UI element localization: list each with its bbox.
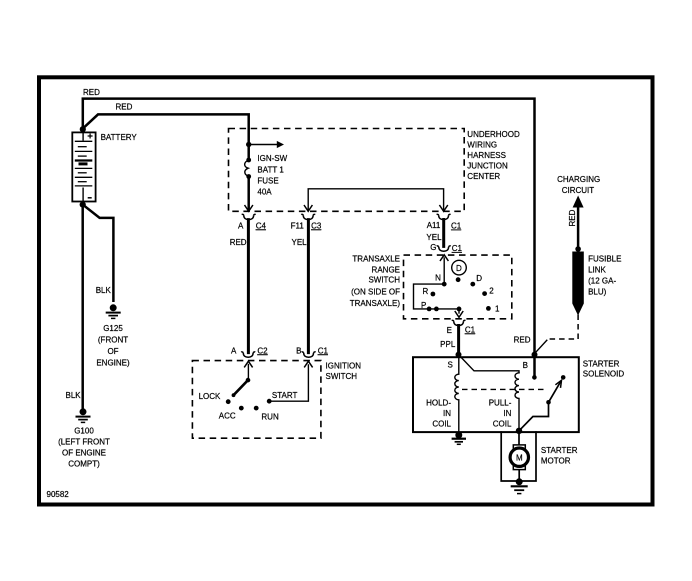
battery positive terminal junction: [80, 126, 86, 132]
position START: [267, 399, 272, 404]
svg-text:TRANSAXLE: TRANSAXLE: [352, 254, 400, 263]
connector C2 (ignition A): [243, 353, 253, 357]
contact R: [431, 292, 436, 297]
svg-text:TRANSAXLE): TRANSAXLE): [350, 299, 401, 308]
contact 2: [482, 291, 487, 296]
wire YEL C3 to ignition switch B: [307, 220, 310, 353]
svg-text:STARTER: STARTER: [583, 359, 620, 368]
svg-text:RED: RED: [230, 238, 247, 247]
svg-text:90582: 90582: [47, 490, 70, 499]
svg-text:1: 1: [495, 305, 500, 314]
svg-text:LOCK: LOCK: [199, 392, 221, 401]
svg-text:C2: C2: [257, 346, 268, 355]
fusible link: [572, 252, 584, 304]
svg-text:40A: 40A: [257, 188, 272, 197]
svg-text:STARTER: STARTER: [541, 446, 578, 455]
svg-text:IGNITION: IGNITION: [326, 361, 362, 370]
starter motor tub: [501, 432, 536, 481]
dashed wire fusible link to solenoid B: [548, 315, 578, 340]
contact 1: [486, 306, 491, 311]
svg-text:COIL: COIL: [432, 420, 451, 429]
svg-text:RANGE: RANGE: [372, 266, 400, 275]
svg-text:BLU): BLU): [588, 288, 607, 297]
svg-text:RED: RED: [116, 103, 133, 112]
mechanical link dashed: [462, 388, 547, 390]
svg-text:B: B: [523, 361, 528, 370]
svg-text:2: 2: [489, 286, 494, 295]
motor junction: [516, 428, 522, 434]
svg-text:FUSIBLE: FUSIBLE: [588, 255, 621, 264]
battery: [72, 132, 95, 201]
wire BLK battery- to G125: [83, 205, 114, 301]
svg-text:HOLD-: HOLD-: [426, 399, 451, 408]
svg-text:IN: IN: [503, 409, 511, 418]
svg-text:(12 GA-: (12 GA-: [588, 277, 616, 286]
svg-text:C3: C3: [311, 221, 322, 230]
svg-text:S: S: [447, 361, 452, 370]
connector C1 (transaxle): [439, 247, 449, 251]
connector C3: [303, 215, 313, 219]
wire junction to motor: [518, 431, 520, 445]
battery negative terminal junction: [80, 202, 86, 208]
contact P (double): [427, 307, 432, 312]
svg-text:FUSE: FUSE: [257, 177, 278, 186]
switch input shaft with arrow: [443, 258, 445, 284]
wire RED battery+ to junction center fuse: [83, 114, 249, 158]
wire RED C4 to ignition switch A: [247, 220, 250, 353]
svg-text:G: G: [430, 243, 436, 252]
svg-text:COIL: COIL: [493, 420, 512, 429]
starter solenoid box: [413, 357, 579, 432]
bracket wire N to P to output: [414, 284, 460, 309]
motor ground: [511, 479, 528, 494]
svg-text:A: A: [238, 221, 244, 230]
contact below circled D: [456, 277, 461, 282]
underhood junction center dashed box: [229, 129, 465, 212]
svg-text:RED: RED: [568, 209, 577, 226]
hold-in coil: [455, 357, 459, 432]
svg-text:LINK: LINK: [588, 266, 606, 275]
svg-text:C1: C1: [318, 346, 329, 355]
svg-text:D: D: [456, 264, 462, 273]
svg-text:(ON SIDE OF: (ON SIDE OF: [351, 287, 400, 296]
node B: [532, 352, 538, 358]
svg-text:R: R: [423, 287, 429, 296]
svg-text:ENGINE): ENGINE): [96, 359, 130, 368]
svg-text:UNDERHOOD: UNDERHOOD: [467, 130, 520, 139]
ignition lever input arrow: [247, 365, 249, 381]
svg-text:COMPT): COMPT): [68, 460, 100, 469]
svg-text:SWITCH: SWITCH: [326, 372, 358, 381]
pull-in coil feed from S: [459, 355, 520, 373]
transaxle range switch dashed box: [404, 255, 512, 319]
svg-text:C1: C1: [465, 325, 476, 334]
connector C1 (junction center): [439, 215, 449, 219]
svg-text:HARNESS: HARNESS: [467, 151, 506, 160]
connector C1 (transaxle output E): [454, 321, 464, 325]
lever to motor junction: [519, 402, 549, 431]
svg-text:SOLENOID: SOLENOID: [583, 370, 625, 379]
svg-text:YEL: YEL: [426, 233, 442, 242]
svg-text:OF ENGINE: OF ENGINE: [62, 449, 106, 458]
wire RED battery+ to solenoid B (top run): [83, 99, 535, 354]
fusible link junction: [575, 246, 581, 252]
svg-text:C4: C4: [256, 221, 267, 230]
svg-text:B: B: [296, 346, 301, 355]
svg-text:START: START: [272, 391, 298, 400]
svg-text:SWITCH: SWITCH: [368, 276, 400, 285]
svg-text:A: A: [231, 346, 237, 355]
connector C4: [244, 215, 254, 219]
wire fuse to connector C4: [247, 178, 250, 210]
wire B contact: [533, 355, 536, 375]
position RUN: [254, 406, 259, 411]
svg-text:F11: F11: [291, 221, 305, 230]
contact D: [470, 282, 475, 287]
contact N: [442, 282, 447, 287]
ignition pivot: [246, 378, 251, 383]
svg-text:BLK: BLK: [96, 286, 112, 295]
svg-text:IN: IN: [443, 409, 451, 418]
svg-text:CENTER: CENTER: [467, 172, 500, 181]
ignition lever: [234, 380, 249, 395]
wire START to B connector: [269, 365, 308, 401]
svg-text:G100: G100: [74, 426, 94, 435]
svg-text:N: N: [435, 274, 441, 283]
svg-text:PULL-: PULL-: [489, 399, 512, 408]
svg-text:BATT 1: BATT 1: [257, 165, 284, 174]
svg-text:MOTOR: MOTOR: [541, 457, 571, 466]
fuse IGN-SW BATT 1 FUSE 40A: [246, 158, 251, 163]
svg-text:RED: RED: [514, 336, 531, 345]
node S: [456, 352, 462, 358]
svg-text:C1: C1: [452, 244, 463, 253]
svg-text:M: M: [516, 453, 523, 462]
svg-text:OF: OF: [107, 347, 118, 356]
moving contact tip: [561, 375, 566, 380]
svg-text:YEL: YEL: [292, 238, 308, 247]
svg-text:PPL: PPL: [440, 340, 456, 349]
svg-text:WIRING: WIRING: [467, 141, 497, 150]
svg-text:(LEFT FRONT: (LEFT FRONT: [58, 438, 110, 447]
svg-text:D: D: [476, 274, 482, 283]
hold-in coil ground: [452, 432, 466, 444]
wire BLK battery- to G100: [81, 205, 84, 408]
bus wire C3 to C1 inside junction center: [308, 189, 443, 210]
svg-text:BLK: BLK: [66, 391, 82, 400]
svg-text:BATTERY: BATTERY: [101, 133, 138, 142]
position ACC: [239, 406, 244, 411]
svg-text:IGN-SW: IGN-SW: [257, 154, 287, 163]
ground G125: [106, 305, 121, 319]
wire PPL to solenoid S: [457, 326, 460, 353]
svg-text:RUN: RUN: [261, 413, 279, 422]
position LOCK: [226, 399, 231, 404]
svg-text:JUNCTION: JUNCTION: [467, 162, 508, 171]
ignition switch dashed box: [192, 361, 321, 439]
svg-text:ACC: ACC: [219, 411, 236, 420]
pull-in coil: [515, 373, 519, 430]
moving contact lever: [549, 382, 561, 402]
connector C1 (ignition B): [304, 353, 314, 357]
border frame: [39, 77, 653, 504]
starter motor M: [510, 448, 528, 466]
svg-text:C1: C1: [451, 222, 462, 231]
svg-text:E: E: [447, 326, 452, 335]
svg-text:CIRCUIT: CIRCUIT: [562, 186, 595, 195]
ground G100: [76, 409, 91, 423]
junction dot with feed arrow: [246, 142, 251, 147]
svg-text:A11: A11: [427, 221, 441, 230]
wire YEL C1 to transaxle switch: [442, 220, 445, 247]
svg-text:(FRONT: (FRONT: [98, 336, 128, 345]
svg-text:CHARGING: CHARGING: [557, 175, 600, 184]
charging circuit arrow: [573, 196, 584, 208]
svg-text:G125: G125: [103, 324, 123, 333]
svg-text:RED: RED: [83, 88, 100, 97]
circled D indicator: [452, 260, 467, 275]
motor brushes: [513, 445, 525, 450]
switch output wire with arrow: [458, 309, 460, 313]
